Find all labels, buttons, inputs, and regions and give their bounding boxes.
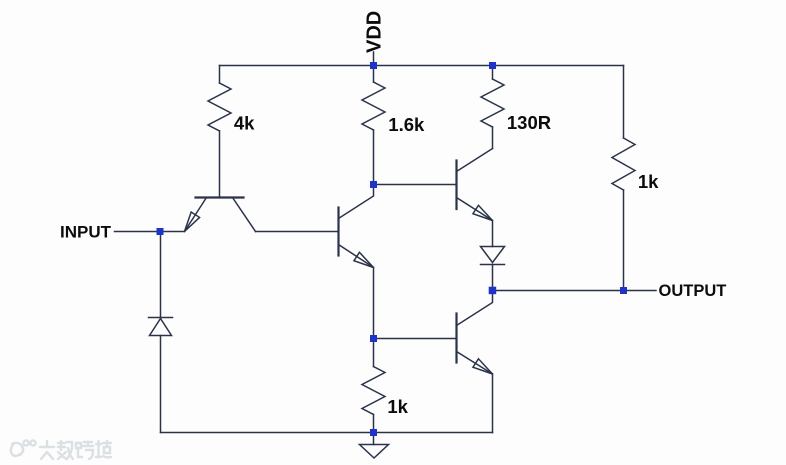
svg-text:1k: 1k [387,396,408,417]
svg-text:VDD: VDD [364,11,386,53]
svg-text:4k: 4k [234,112,255,133]
svg-text:1k: 1k [638,171,659,192]
svg-text:130R: 130R [507,112,551,133]
svg-text:OUTPUT: OUTPUT [659,282,727,300]
svg-text:1.6k: 1.6k [388,114,425,135]
svg-text:INPUT: INPUT [60,223,112,242]
